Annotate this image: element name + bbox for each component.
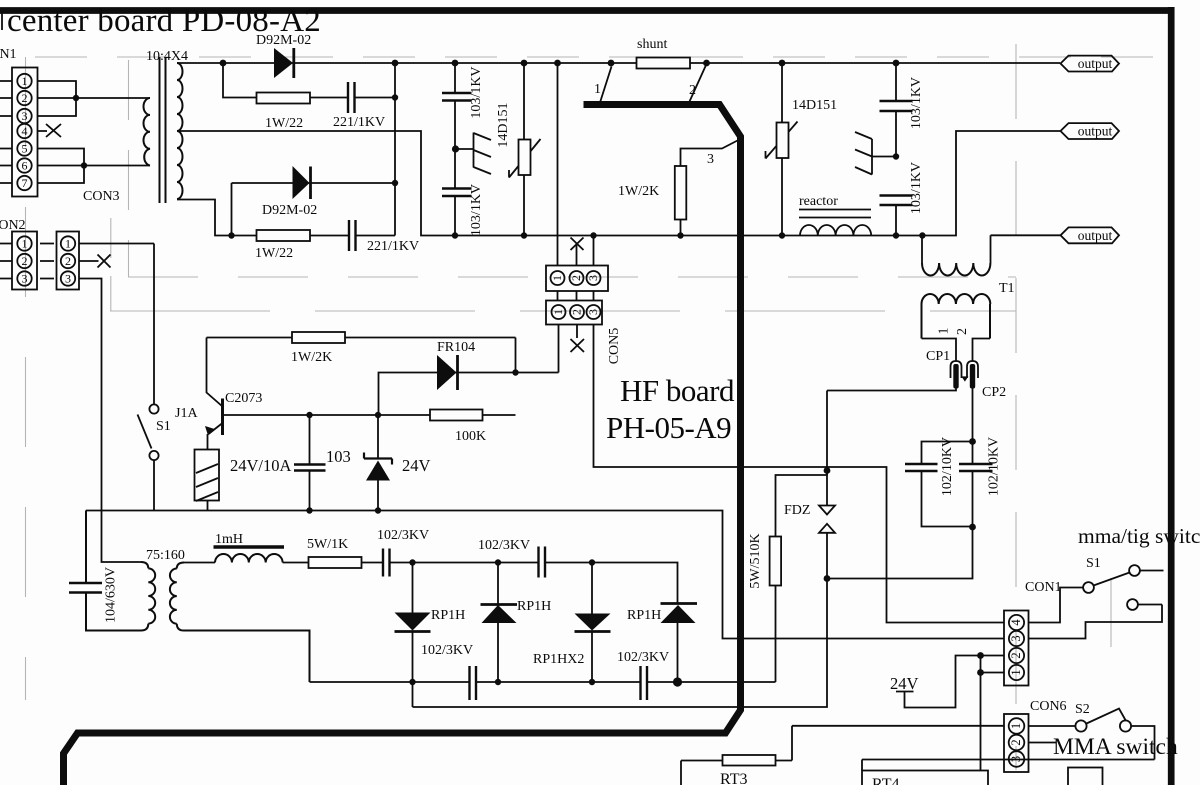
svg-text:2: 2 [22,254,28,268]
svg-text:S2: S2 [1075,702,1090,717]
svg-text:3: 3 [1009,756,1023,762]
svg-text:102/3KV: 102/3KV [478,538,530,553]
svg-text:output: output [1078,228,1113,243]
svg-text:103/1KV: 103/1KV [469,66,484,118]
svg-text:2: 2 [569,275,583,281]
svg-text:14D151: 14D151 [792,98,837,113]
svg-text:1: 1 [65,237,71,251]
svg-text:24V: 24V [402,456,431,475]
svg-text:CON2: CON2 [0,218,26,233]
svg-text:output: output [1078,124,1113,139]
svg-text:102/10KV: 102/10KV [940,437,955,496]
svg-text:1mH: 1mH [215,532,243,547]
svg-text:RT3: RT3 [720,771,747,785]
svg-text:104/630V: 104/630V [104,567,119,623]
svg-text:4: 4 [1009,619,1023,626]
svg-text:3: 3 [65,272,71,286]
svg-text:output: output [1078,56,1113,71]
svg-text:75:160: 75:160 [146,548,185,563]
svg-text:3: 3 [586,309,600,315]
svg-text:5W/510K: 5W/510K [748,533,763,588]
svg-text:4: 4 [22,124,28,138]
svg-text:HF board: HF board [620,373,735,408]
svg-text:CP1: CP1 [926,349,950,364]
svg-text:10:4X4: 10:4X4 [146,49,188,64]
svg-text:5: 5 [22,142,28,156]
svg-text:3: 3 [22,109,28,123]
svg-text:J1A: J1A [175,406,198,421]
svg-text:2: 2 [1009,739,1023,745]
svg-text:102/3KV: 102/3KV [421,643,473,658]
svg-text:2: 2 [1009,652,1023,658]
svg-text:2: 2 [22,91,28,105]
svg-text:1: 1 [22,74,28,88]
svg-text:mma/tig switch: mma/tig switch [1078,524,1200,548]
svg-text:CON1: CON1 [0,47,17,62]
svg-text:3: 3 [22,272,28,286]
svg-text:MMA switch: MMA switch [1053,734,1178,760]
svg-text:CON5: CON5 [607,328,622,365]
svg-text:5W/1K: 5W/1K [307,537,348,552]
svg-text:PH-05-A9: PH-05-A9 [606,410,731,445]
svg-text:2: 2 [65,254,71,268]
svg-text:103/1KV: 103/1KV [909,77,924,129]
svg-text:24V/10A: 24V/10A [230,456,292,475]
svg-text:1: 1 [594,82,601,97]
svg-text:CON3: CON3 [83,189,120,204]
svg-text:1: 1 [550,275,564,281]
svg-text:center board PD-08-A2: center board PD-08-A2 [7,3,321,39]
svg-text:RP1H: RP1H [431,608,465,623]
svg-text:FR104: FR104 [437,340,475,355]
svg-text:221/1KV: 221/1KV [367,239,419,254]
svg-text:1: 1 [22,237,28,251]
svg-text:2: 2 [955,328,970,335]
svg-text:1W/22: 1W/22 [255,246,293,261]
svg-text:7: 7 [22,176,28,190]
svg-text:1W/2K: 1W/2K [618,184,659,199]
svg-text:1: 1 [551,309,565,315]
svg-text:103/1KV: 103/1KV [469,184,484,236]
svg-text:shunt: shunt [637,37,667,52]
svg-text:6: 6 [22,159,28,173]
svg-text:1: 1 [1009,669,1023,675]
svg-text:103: 103 [326,447,351,466]
svg-text:1: 1 [1009,723,1023,729]
svg-text:D92M-02: D92M-02 [262,203,317,218]
svg-text:CON1: CON1 [1025,580,1062,595]
svg-text:RP1HX2: RP1HX2 [533,652,584,667]
svg-text:3: 3 [586,275,600,281]
svg-text:102/3KV: 102/3KV [617,650,669,665]
svg-text:1: 1 [937,328,952,335]
svg-text:CON6: CON6 [1030,699,1067,714]
svg-text:3: 3 [707,152,714,167]
svg-text:14D151: 14D151 [496,102,511,147]
svg-text:S1: S1 [1086,556,1101,571]
svg-text:3: 3 [1009,635,1023,641]
svg-text:24V: 24V [890,674,919,693]
svg-text:C2073: C2073 [225,391,262,406]
svg-text:RP1H: RP1H [517,599,551,614]
svg-text:100K: 100K [455,429,486,444]
svg-text:103/1KV: 103/1KV [909,162,924,214]
svg-text:1W/2K: 1W/2K [291,350,332,365]
svg-text:S1: S1 [156,419,171,434]
svg-text:RP1H: RP1H [627,608,661,623]
svg-text:FDZ: FDZ [784,503,810,518]
svg-text:2: 2 [689,83,696,98]
svg-text:2: 2 [570,309,584,315]
svg-text:1W/22: 1W/22 [265,116,303,131]
svg-text:102/3KV: 102/3KV [377,528,429,543]
svg-text:RT4: RT4 [872,776,899,785]
svg-text:reactor: reactor [799,194,838,209]
svg-text:CP2: CP2 [982,385,1006,400]
svg-text:221/1KV: 221/1KV [333,115,385,130]
svg-text:102/10KV: 102/10KV [987,437,1002,496]
svg-text:T1: T1 [999,281,1015,296]
